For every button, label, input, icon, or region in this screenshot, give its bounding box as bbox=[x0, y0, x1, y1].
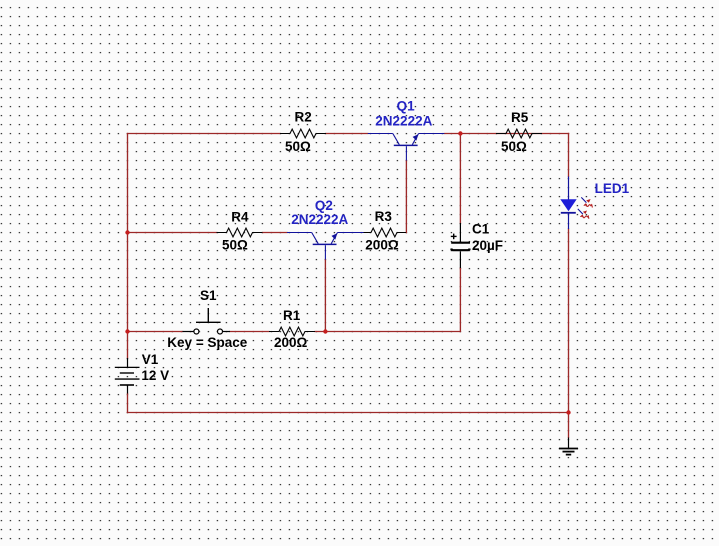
svg-text:50Ω: 50Ω bbox=[222, 238, 248, 253]
svg-text:20µF: 20µF bbox=[472, 238, 503, 253]
svg-text:50Ω: 50Ω bbox=[285, 139, 311, 154]
svg-text:R1: R1 bbox=[283, 308, 301, 323]
svg-text:Q1: Q1 bbox=[397, 98, 416, 113]
svg-text:200Ω: 200Ω bbox=[274, 335, 308, 350]
svg-text:12 V: 12 V bbox=[141, 368, 169, 383]
svg-text:LED1: LED1 bbox=[595, 181, 630, 196]
svg-text:R3: R3 bbox=[375, 209, 393, 224]
svg-text:200Ω: 200Ω bbox=[365, 238, 399, 253]
svg-text:R2: R2 bbox=[295, 110, 312, 125]
svg-text:Q2: Q2 bbox=[315, 198, 333, 213]
svg-text:2N2222A: 2N2222A bbox=[291, 212, 348, 227]
svg-text:C1: C1 bbox=[472, 222, 490, 237]
svg-text:R4: R4 bbox=[231, 209, 249, 224]
svg-text:R5: R5 bbox=[511, 110, 529, 125]
svg-text:Key = Space: Key = Space bbox=[167, 335, 247, 350]
svg-text:2N2222A: 2N2222A bbox=[375, 114, 432, 129]
svg-text:50Ω: 50Ω bbox=[501, 139, 527, 154]
svg-text:V1: V1 bbox=[142, 352, 159, 367]
svg-text:S1: S1 bbox=[200, 288, 217, 303]
